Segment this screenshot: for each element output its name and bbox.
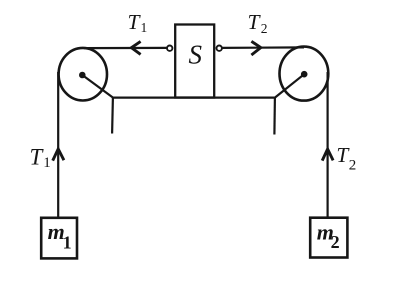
right support leg bbox=[273, 98, 276, 135]
right pulley P2 bbox=[280, 47, 329, 101]
svg-text:T: T bbox=[128, 10, 142, 34]
svg-text:1: 1 bbox=[63, 232, 72, 252]
wire: rope from right hook to right pulley top bbox=[222, 46, 304, 49]
wire: left vertical rope to m1 bbox=[57, 72, 59, 218]
svg-text:S: S bbox=[189, 40, 203, 70]
right pulley axle dot bbox=[301, 71, 308, 78]
horizontal support bar bbox=[112, 96, 276, 98]
left pulley P1 bbox=[59, 48, 107, 101]
right hook of scale bbox=[217, 46, 222, 51]
svg-text:1: 1 bbox=[43, 155, 51, 171]
right pulley support strut bbox=[275, 74, 304, 97]
svg-text:T: T bbox=[30, 144, 45, 169]
wire: rope from left hook to left pulley top bbox=[84, 47, 167, 49]
arrow on right rope (T2, pointing right) bbox=[251, 41, 260, 55]
arrow on left vertical rope (T1, pointing up) bbox=[53, 149, 64, 161]
left pulley axle dot bbox=[79, 72, 86, 79]
mass block m2 bbox=[310, 218, 347, 258]
svg-text:1: 1 bbox=[141, 20, 148, 35]
svg-text:2: 2 bbox=[261, 21, 268, 36]
svg-text:2: 2 bbox=[331, 232, 340, 252]
left hook of scale bbox=[167, 46, 172, 51]
left pulley support strut bbox=[82, 75, 113, 98]
arrow on left rope (T1, pointing left) bbox=[131, 41, 140, 54]
mass block m1 bbox=[41, 218, 77, 259]
wire: right vertical rope to m2 bbox=[327, 72, 329, 218]
svg-text:2: 2 bbox=[349, 157, 357, 173]
spring scale S box bbox=[175, 25, 214, 98]
left support leg bbox=[111, 98, 114, 134]
svg-text:T: T bbox=[248, 10, 262, 34]
arrow on right vertical rope (T2, pointing up) bbox=[322, 149, 333, 161]
